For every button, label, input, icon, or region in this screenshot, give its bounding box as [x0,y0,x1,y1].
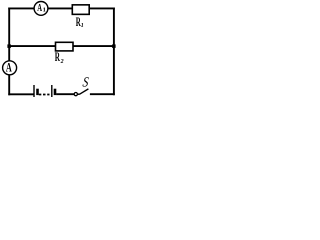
svg-text:2: 2 [60,59,64,65]
svg-text:S: S [82,75,90,91]
wire middle [9,45,114,47]
resistor R2 [55,42,73,65]
wire battery to switch [56,93,74,95]
battery cell 2 short plate [54,89,57,95]
node junction left [7,44,10,48]
wire top [8,7,115,9]
svg-text:A: A [6,59,12,74]
switch stub [77,93,79,95]
switch S pivot [74,93,77,96]
battery cell 2 long plate [51,85,53,97]
wire right [113,8,115,96]
battery cell 1 long plate [33,85,35,97]
svg-text:A: A [37,2,42,14]
battery cell 1 short plate [36,89,39,95]
wire bottom left [8,93,33,95]
svg-text:1: 1 [81,23,84,29]
ammeter A [3,59,17,75]
switch lever [80,89,89,94]
svg-text:R: R [55,49,61,64]
wire switch to corner [90,93,115,95]
wire left [8,8,10,96]
svg-text:1: 1 [43,6,46,13]
ammeter A1 [34,1,48,15]
battery dashed link [39,94,50,96]
node junction right [112,44,116,48]
resistor R1 [72,5,89,29]
